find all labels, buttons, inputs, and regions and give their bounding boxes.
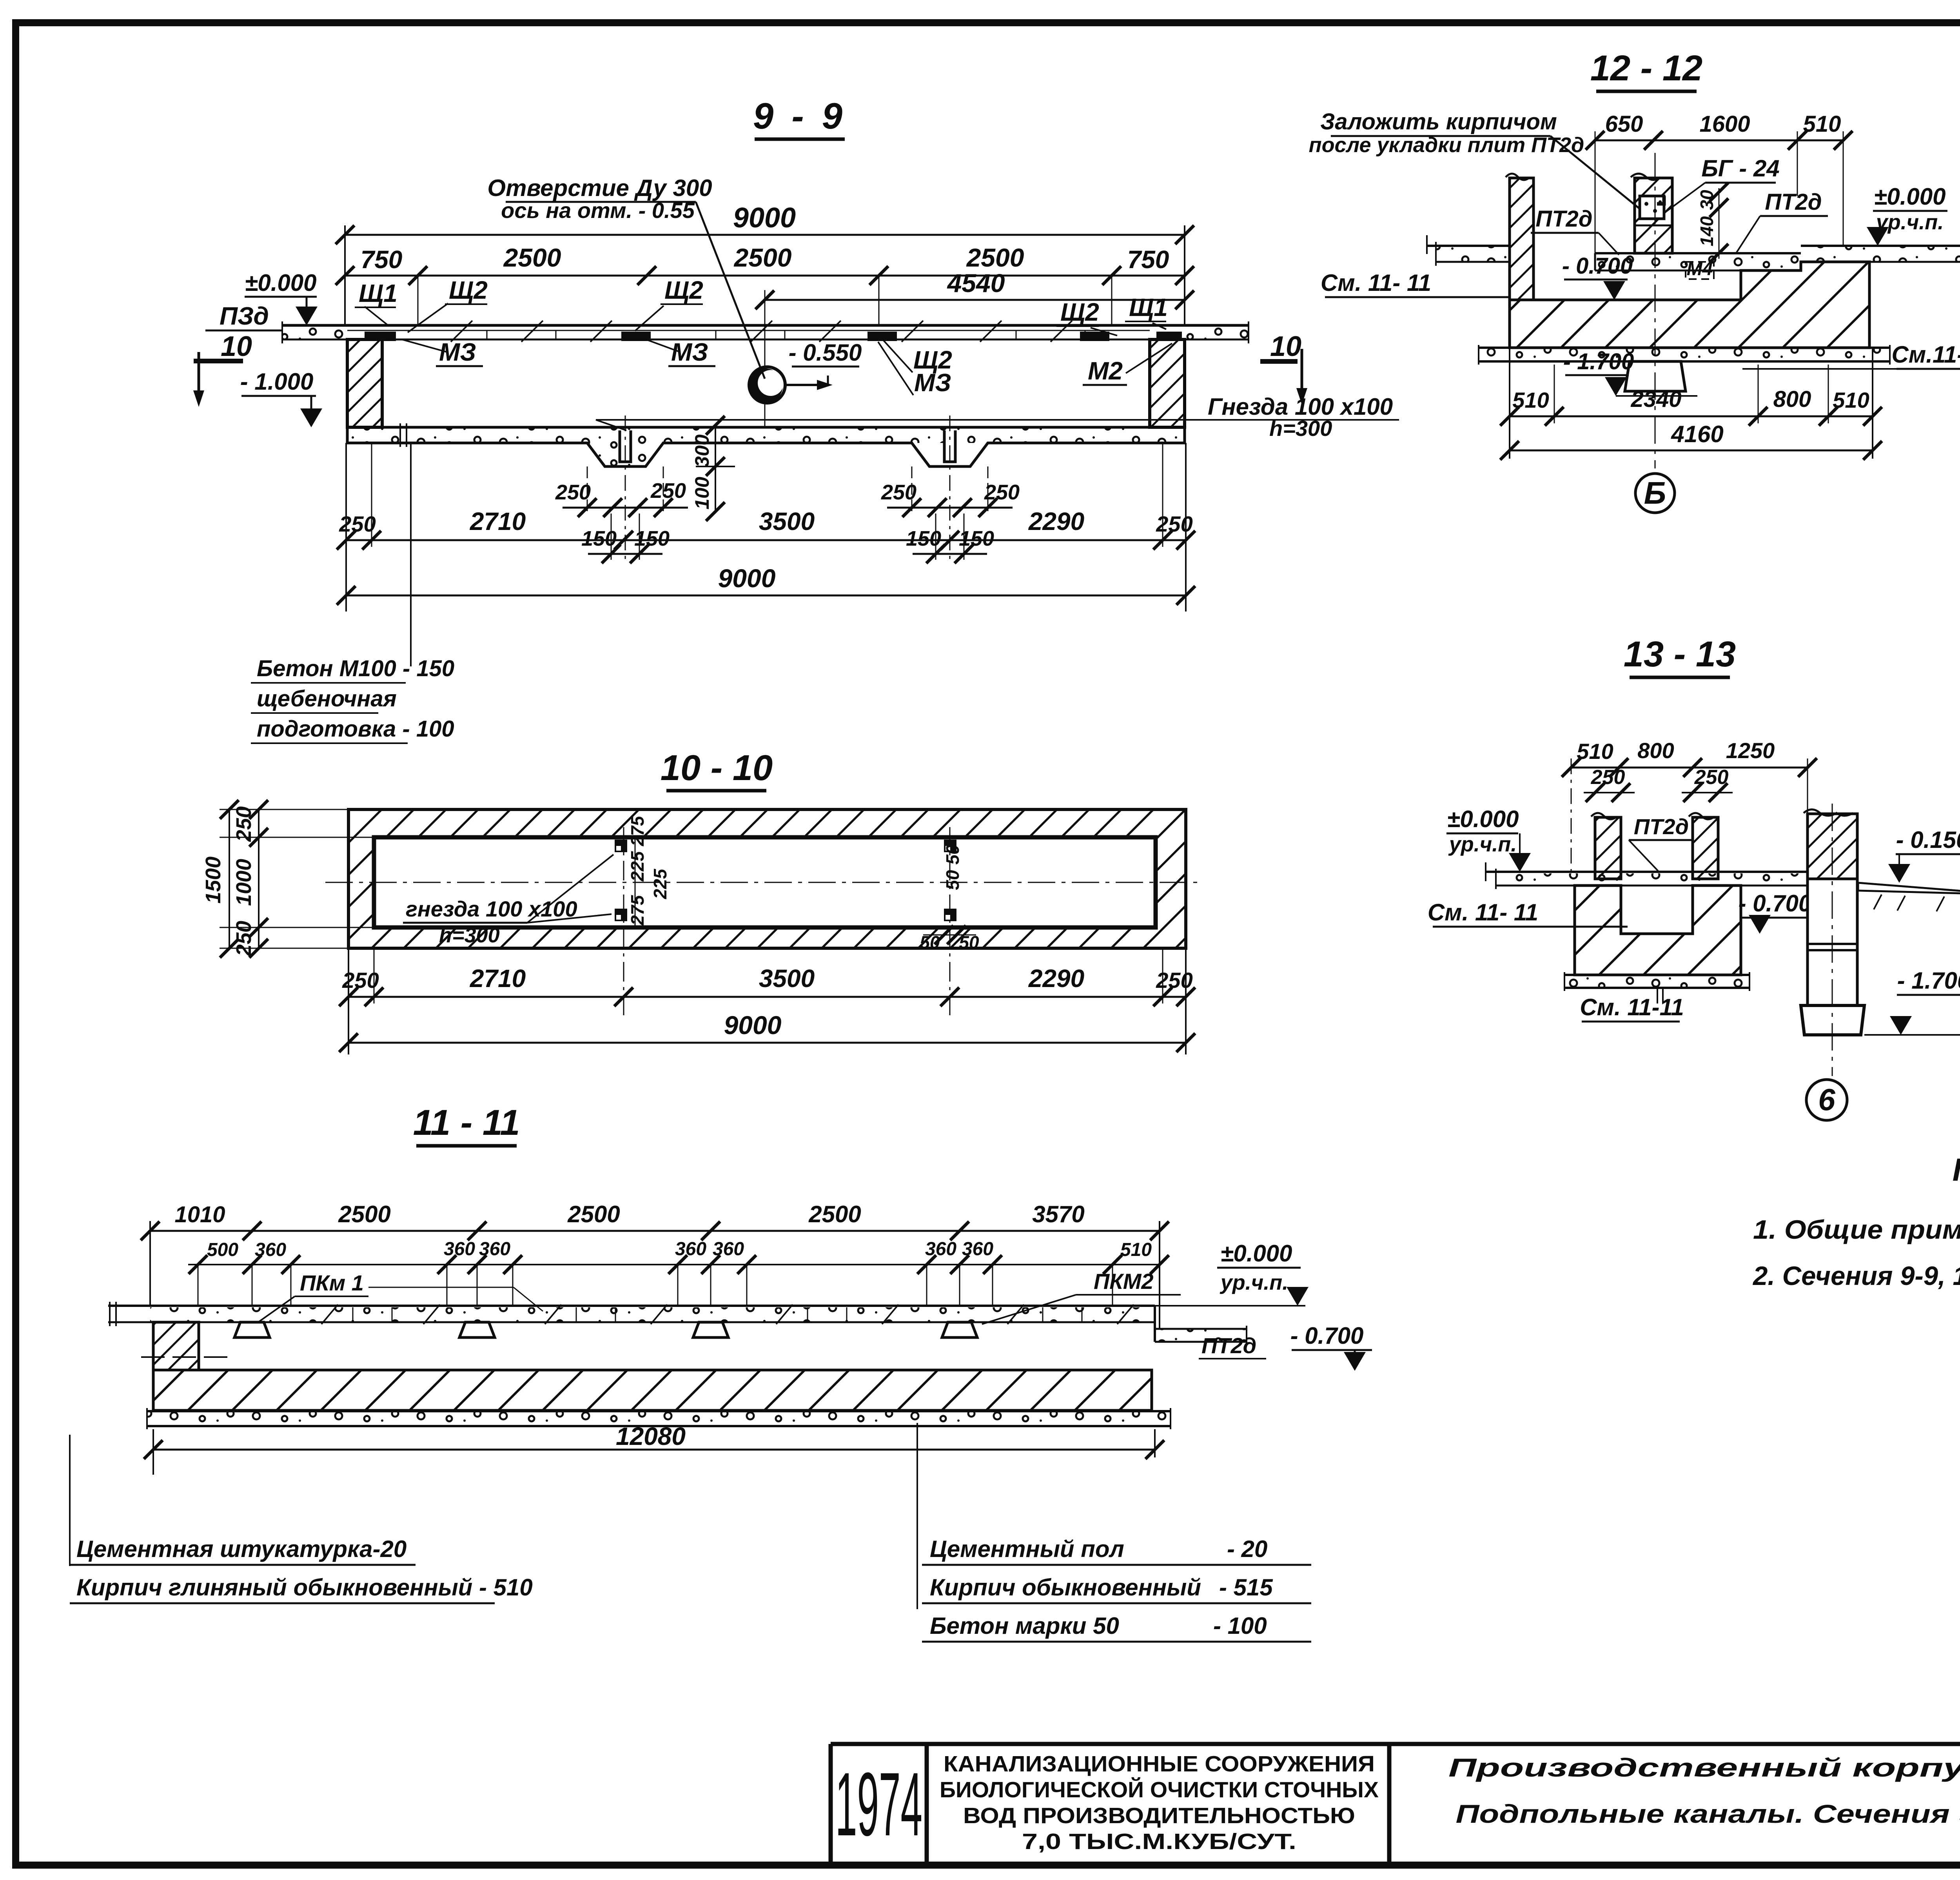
svg-text:1. Общие примечания см. ли: 1. Общие примечания см. лист КС-12.	[1753, 1215, 1960, 1245]
svg-text:подготовка - 100: подготовка - 100	[257, 716, 454, 742]
9-9 panel labels left	[355, 276, 488, 366]
11-11 label PT2d	[1199, 1333, 1266, 1359]
svg-text:±0.000: ±0.000	[1874, 183, 1945, 210]
12-12 left wall	[1506, 174, 1534, 300]
svg-text:МЗ: МЗ	[914, 368, 951, 397]
11-11 top dim row	[141, 1201, 1169, 1329]
9-9 level -0.550	[786, 339, 862, 390]
svg-text:ПТ2д: ПТ2д	[1634, 814, 1689, 839]
svg-text:- 1.700: - 1.700	[1897, 967, 1960, 994]
svg-text:510: 510	[1803, 111, 1841, 137]
12-12 underbed band	[1479, 345, 1890, 365]
svg-text:ур.ч.п.: ур.ч.п.	[1220, 1271, 1289, 1294]
svg-text:М2: М2	[1088, 357, 1123, 385]
svg-text:2500: 2500	[733, 243, 792, 272]
svg-text:Щ2: Щ2	[664, 276, 703, 304]
svg-text:КАНАЛИЗАЦИОННЫЕ СООРУЖЕНИЯ: КАНАЛИЗАЦИОННЫЕ СООРУЖЕНИЯ	[944, 1751, 1375, 1777]
10-10 dim 9000	[339, 1011, 1195, 1052]
13-13 ground wedge right	[1858, 883, 1960, 911]
9-9 bottom dim row 250/2710/3500/2290/250	[337, 443, 1195, 612]
svg-text:1600: 1600	[1699, 111, 1750, 137]
12-12 ref label see 11-11 left	[1321, 270, 1510, 297]
svg-text:1500: 1500	[201, 857, 225, 904]
9-9 bottom slab	[347, 423, 1185, 466]
title block: project name	[940, 1751, 1379, 1854]
svg-text:750: 750	[361, 245, 403, 274]
9-9 dim row 750/2500/2500/2500/750	[336, 243, 1194, 325]
svg-text:ПЗд: ПЗд	[220, 302, 269, 330]
11-11 ceiling slab band	[108, 1302, 1155, 1326]
svg-text:- 0.550: - 0.550	[789, 339, 862, 366]
12-12 channel floor PT2d band	[1595, 253, 1801, 270]
svg-text:250: 250	[881, 481, 916, 504]
svg-text:12080: 12080	[616, 1422, 686, 1450]
svg-text:1000: 1000	[232, 859, 256, 906]
svg-text:±0.000: ±0.000	[245, 270, 316, 296]
svg-text:ПТ2д: ПТ2д	[1535, 206, 1592, 232]
svg-text:Щ1: Щ1	[359, 279, 397, 307]
svg-text:БИОЛОГИЧЕСКОЙ ОЧИСТКИ СТОЧНЫХ: БИОЛОГИЧЕСКОЙ ОЧИСТКИ СТОЧНЫХ	[940, 1777, 1379, 1802]
10-10 gnezda label	[403, 855, 613, 947]
svg-text:Щ2: Щ2	[1060, 298, 1099, 326]
svg-text:См.11-11: См.11-11	[1892, 341, 1960, 368]
svg-text:510: 510	[1512, 388, 1549, 412]
svg-text:1250: 1250	[1726, 738, 1775, 763]
9-9 right wall	[1150, 339, 1185, 427]
svg-text:2500: 2500	[503, 243, 561, 272]
12-12 brick note label	[1309, 109, 1643, 212]
svg-text:250: 250	[1156, 968, 1192, 993]
svg-text:250: 250	[339, 512, 376, 536]
svg-text:360: 360	[479, 1239, 510, 1259]
11-11 panel label PKM2	[982, 1269, 1181, 1324]
12-12 dim 4160	[1500, 421, 1882, 460]
9-9 pit centerlines	[625, 416, 626, 564]
10-10 gnezda small dims	[627, 815, 979, 953]
svg-text:h=300: h=300	[439, 924, 500, 947]
9-9 gnezda label	[596, 394, 1399, 441]
svg-text:2290: 2290	[1028, 964, 1084, 993]
svg-text:275: 275	[627, 895, 648, 925]
svg-text:360: 360	[925, 1239, 956, 1259]
svg-text:ПТ2д: ПТ2д	[1765, 189, 1822, 215]
11-11 right material notes	[917, 1423, 1311, 1642]
9-9 cut mark 10 left	[193, 331, 252, 407]
svg-text:750: 750	[1127, 245, 1169, 274]
svg-text:225: 225	[650, 868, 670, 899]
9-9 pit1 U-channel	[620, 430, 631, 462]
12-12 right floor band	[1801, 235, 1960, 266]
svg-text:Цементный пол: Цементный пол	[930, 1536, 1124, 1562]
svg-text:Щ2: Щ2	[449, 276, 488, 304]
12-12 label BG-24	[1666, 155, 1780, 212]
svg-text:13 - 13: 13 - 13	[1624, 634, 1736, 674]
10-10 centerline	[325, 882, 1203, 883]
svg-text:9 - 9: 9 - 9	[753, 95, 846, 136]
svg-text:гнезда 100 х100: гнезда 100 х100	[406, 896, 577, 921]
svg-text:9000: 9000	[733, 202, 796, 234]
10-10 gnezda squares	[615, 840, 956, 921]
svg-text:4160: 4160	[1671, 421, 1723, 447]
13-13 level -0.150	[1888, 827, 1960, 883]
svg-text:- 0.150: - 0.150	[1896, 827, 1960, 853]
13-13 ref see 11-11 bottom	[1580, 988, 1684, 1022]
13-13 level +0.000	[1446, 806, 1531, 872]
12-12 level -1.700	[1563, 349, 1697, 396]
svg-text:360: 360	[255, 1239, 286, 1260]
svg-text:БГ - 24: БГ - 24	[1701, 155, 1779, 181]
11-11 level -0.700	[1290, 1323, 1372, 1371]
svg-text:250: 250	[232, 921, 256, 956]
svg-text:3570: 3570	[1032, 1201, 1084, 1227]
svg-text:Бетон М100 - 150: Бетон М100 - 150	[257, 656, 454, 681]
svg-text:Щ1: Щ1	[1129, 293, 1168, 321]
12-12 bottom dim row 510/2340/800/510	[1500, 300, 1882, 459]
13-13 floor slab band	[1486, 862, 1808, 889]
svg-text:360: 360	[962, 1239, 993, 1259]
svg-text:9000: 9000	[718, 564, 776, 593]
svg-text:2340: 2340	[1630, 387, 1681, 412]
svg-text:7,0 ТЫС.М.КУБ/СУТ.: 7,0 ТЫС.М.КУБ/СУТ.	[1022, 1829, 1296, 1854]
9-9 dim 4540	[755, 269, 1194, 427]
svg-text:360: 360	[444, 1239, 475, 1259]
12-12 footing	[1625, 361, 1686, 391]
9-9 pit1 dims	[555, 466, 688, 563]
svg-text:- 515: - 515	[1219, 1574, 1273, 1601]
13-13 foundation with channel notch	[1575, 886, 1741, 975]
svg-text:2500: 2500	[567, 1201, 620, 1227]
12-12 label PT2d right	[1737, 189, 1828, 252]
svg-text:510: 510	[1833, 388, 1869, 412]
12-12 top dim row 650/1600/510	[1586, 111, 1853, 254]
svg-text:800: 800	[1637, 738, 1674, 763]
svg-text:±0.000: ±0.000	[1220, 1240, 1292, 1267]
svg-text:- 100: - 100	[1213, 1613, 1267, 1639]
svg-text:Кирпич глиняный обыкновенный -: Кирпич глиняный обыкновенный - 510	[76, 1574, 533, 1601]
svg-text:510: 510	[1120, 1239, 1152, 1260]
svg-text:Цементная штукатурка-20: Цементная штукатурка-20	[76, 1536, 407, 1562]
svg-text:- 0.700: - 0.700	[1739, 890, 1812, 916]
svg-text:50: 50	[942, 870, 963, 890]
svg-text:100: 100	[691, 477, 713, 510]
11-11 supports	[234, 1322, 977, 1337]
section 12-12 title	[1590, 48, 1702, 91]
svg-text:щебеночная: щебеночная	[257, 686, 397, 711]
svg-text:360: 360	[713, 1239, 744, 1259]
svg-text:2500: 2500	[966, 243, 1024, 272]
svg-text:510: 510	[1577, 739, 1613, 764]
12-12 centerline	[1655, 153, 1656, 468]
svg-text:- 1.700: - 1.700	[1563, 349, 1634, 374]
title block	[831, 1744, 1960, 1862]
svg-text:300: 300	[691, 434, 713, 467]
svg-text:250: 250	[650, 479, 686, 503]
svg-text:См. 11-11: См. 11-11	[1580, 994, 1684, 1020]
section 9-9 title	[753, 95, 846, 139]
svg-text:Подпольные каналы. Сечения 9: Подпольные каналы. Сечения 9-9÷15-15.	[1456, 1799, 1960, 1828]
svg-text:10: 10	[1270, 331, 1301, 362]
9-9 dim 9000 top	[336, 202, 1194, 325]
svg-text:250: 250	[232, 806, 256, 842]
11-11 level dash in channel	[141, 1356, 235, 1358]
svg-text:250: 250	[1591, 766, 1625, 789]
section 11-11 title	[413, 1103, 520, 1146]
svg-text:Бетон марки 50: Бетон марки 50	[930, 1613, 1119, 1639]
svg-text:2710: 2710	[470, 964, 526, 993]
section 13-13 title	[1624, 634, 1736, 677]
9-9 label P3d	[205, 302, 283, 330]
svg-text:275: 275	[627, 815, 648, 846]
svg-text:Заложить кирпичом: Заложить кирпичом	[1320, 109, 1557, 134]
13-13 level -1.700	[1864, 967, 1960, 1035]
9-9 level +0.000 left	[245, 270, 318, 325]
svg-text:3500: 3500	[759, 507, 815, 535]
svg-text:360: 360	[675, 1239, 706, 1259]
svg-text:Примечания: Примечания	[1953, 1152, 1960, 1188]
11-11 level mark right	[1217, 1240, 1308, 1306]
svg-text:250: 250	[342, 968, 379, 993]
11-11 left end block	[153, 1322, 199, 1370]
12-12 brick column	[1631, 174, 1672, 253]
9-9 pit2 U-channel	[944, 430, 955, 462]
svg-text:1974: 1974	[835, 1754, 922, 1855]
13-13 column footing	[1801, 1005, 1864, 1035]
9-9 dim 9000 bottom	[337, 564, 1195, 605]
12-12 axis circle B	[1635, 474, 1675, 513]
9-9 opening label	[487, 175, 765, 379]
svg-text:250: 250	[1156, 512, 1192, 536]
svg-text:2500: 2500	[808, 1201, 861, 1227]
svg-text:800: 800	[1773, 387, 1811, 412]
svg-text:ПТ2д: ПТ2д	[1201, 1333, 1256, 1358]
svg-text:50: 50	[942, 844, 963, 865]
svg-text:ПКм 1: ПКм 1	[300, 1270, 364, 1295]
svg-text:Кирпич обыкновенный: Кирпич обыкновенный	[930, 1574, 1201, 1601]
svg-text:ПКМ2: ПКМ2	[1094, 1269, 1154, 1294]
10-10 left dims	[201, 800, 374, 958]
9-9 pit2 dims	[881, 466, 1020, 563]
svg-text:650: 650	[1605, 111, 1643, 137]
title block: sheet title	[1448, 1753, 1960, 1828]
svg-text:9000: 9000	[724, 1011, 782, 1040]
svg-text:2. Сечения 9-9, 10-10; 11-11: 2. Сечения 9-9, 10-10; 11-11÷15-15 снесе…	[1752, 1261, 1960, 1291]
10-10 walls (hatched ring)	[348, 809, 1186, 948]
svg-text:2290: 2290	[1028, 507, 1084, 535]
svg-text:См. 11- 11: См. 11- 11	[1321, 270, 1431, 296]
10-10 bottom dim row	[339, 827, 1195, 1054]
13-13 underbed band	[1564, 972, 1749, 991]
13-13 column centerline + circle 6	[1806, 804, 1847, 1120]
svg-text:Б: Б	[1644, 475, 1666, 510]
11-11 left material notes	[70, 1435, 533, 1603]
svg-text:ур.ч.п.: ур.ч.п.	[1448, 833, 1517, 856]
svg-text:ВОД ПРОИЗВОДИТЕЛЬНОСТЬЮ: ВОД ПРОИЗВОДИТЕЛЬНОСТЬЮ	[963, 1803, 1355, 1828]
svg-text:- 1.000: - 1.000	[240, 368, 314, 395]
svg-text:2710: 2710	[470, 507, 526, 535]
notes title	[1953, 1152, 1960, 1192]
svg-text:Отверстие Ду 300: Отверстие Ду 300	[487, 175, 712, 201]
11-11 foundation slab	[153, 1370, 1152, 1410]
svg-text:4540: 4540	[947, 269, 1005, 298]
9-9 level -1.000 left	[240, 368, 322, 427]
9-9 hole D300	[748, 367, 785, 403]
svg-text:2500: 2500	[338, 1201, 390, 1227]
svg-text:11 - 11: 11 - 11	[413, 1103, 520, 1143]
12-12 level +0.000	[1867, 183, 1947, 246]
svg-text:Производственный корпус.: Производственный корпус.	[1448, 1753, 1960, 1782]
svg-text:225: 225	[627, 851, 648, 882]
svg-text:±0.000: ±0.000	[1447, 806, 1519, 832]
svg-text:500: 500	[207, 1239, 238, 1260]
12-12 ref label see 11-11 right	[1742, 341, 1960, 369]
13-13 sub dims 250/250	[1584, 766, 1733, 802]
12-12 level -0.700	[1562, 253, 1633, 300]
9-9 cut mark 10 right	[1260, 331, 1307, 405]
svg-text:МЗ: МЗ	[671, 338, 708, 366]
11-11 sub dim row	[188, 1239, 1169, 1306]
svg-text:- 0.700: - 0.700	[1562, 253, 1633, 279]
13-13 top dim row 510/800/1250	[1562, 738, 1817, 874]
svg-text:12 - 12: 12 - 12	[1590, 48, 1702, 88]
11-11 underbed band	[147, 1408, 1171, 1429]
9-9 concrete note	[251, 443, 454, 743]
11-11 dim 12080	[144, 1422, 1164, 1475]
svg-text:6: 6	[1818, 1082, 1835, 1117]
13-13 right wall	[1689, 813, 1718, 879]
svg-text:См. 11- 11: См. 11- 11	[1428, 899, 1538, 925]
svg-text:- 20: - 20	[1227, 1536, 1267, 1562]
11-11 panel label PKm1	[259, 1270, 543, 1322]
12-12 left outer floor band	[1427, 235, 1510, 266]
svg-text:250: 250	[1694, 766, 1729, 789]
13-13 level -0.700	[1739, 890, 1812, 934]
svg-text:250: 250	[555, 481, 591, 504]
9-9 pit1 depth dims	[691, 416, 735, 521]
svg-text:3500: 3500	[759, 964, 815, 993]
svg-text:- 0.700: - 0.700	[1290, 1323, 1364, 1349]
13-13 right column wall	[1804, 809, 1857, 1005]
section 10-10 title	[661, 748, 773, 791]
12-12 small dims 30/140	[1697, 183, 1728, 263]
svg-text:10 - 10: 10 - 10	[661, 748, 773, 788]
svg-text:10: 10	[221, 331, 252, 362]
svg-text:30: 30	[1697, 190, 1717, 210]
12-12 label PT2d left	[1531, 206, 1619, 255]
13-13 label PT2d	[1629, 814, 1693, 871]
9-9 panel labels mid	[635, 276, 952, 397]
9-9 panel labels right	[1056, 293, 1172, 385]
svg-text:1010: 1010	[174, 1202, 225, 1227]
9-9 left wall	[347, 339, 382, 427]
9-9 ceiling slab	[282, 321, 1249, 343]
svg-text:250: 250	[984, 481, 1020, 504]
13-13 left wall	[1591, 813, 1621, 879]
svg-text:140: 140	[1697, 216, 1717, 246]
13-13 ref see 11-11 left	[1428, 899, 1628, 927]
12-12 foundation mass	[1510, 262, 1869, 348]
11-11 right end lowered slab PT2d	[1155, 1306, 1305, 1345]
12-12 label M4	[1686, 259, 1714, 279]
